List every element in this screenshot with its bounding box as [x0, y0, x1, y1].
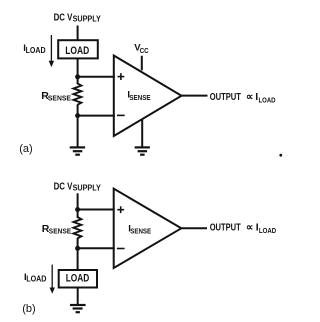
current arrow ILOAD (b): [50, 265, 55, 294]
plus input symbol (a): [118, 73, 125, 80]
svg-text:SENSE: SENSE: [129, 93, 150, 102]
svg-text:∝: ∝: [246, 91, 254, 103]
label DC VSUPPLY (a): [54, 12, 102, 23]
resistor RSENSE (a): [73, 83, 81, 104]
svg-text:OUTPUT: OUTPUT: [210, 221, 241, 233]
svg-text:LOAD: LOAD: [26, 46, 46, 55]
label OUTPUT prop ILOAD (a): [210, 91, 276, 105]
label RSENSE (b): [42, 223, 71, 236]
load box LOAD (a): [58, 40, 98, 58]
wire resistor to ground (a): [77, 105, 79, 148]
node junction bottom of RSENSE (b): [75, 246, 80, 251]
plus input symbol (b): [117, 206, 124, 213]
wire supply to resistor (b): [77, 193, 79, 218]
output wire (b): [181, 227, 207, 229]
svg-text:LOAD: LOAD: [66, 273, 90, 285]
load box LOAD (b): [59, 270, 97, 288]
label OUTPUT prop ILOAD (b): [210, 221, 277, 235]
wire node to + input (a): [78, 76, 115, 78]
node junction bottom of RSENSE (a): [75, 113, 80, 118]
output wire (a): [182, 95, 208, 97]
node junction top of RSENSE (b): [75, 207, 80, 212]
minus input symbol (b): [117, 248, 125, 250]
label ILOAD (b): [24, 272, 47, 284]
label ISENSE (b): [128, 223, 151, 235]
svg-text:LOAD: LOAD: [26, 275, 46, 284]
wire node to - input (a): [78, 115, 115, 117]
resistor RSENSE (b): [73, 217, 81, 238]
current arrow ILOAD (a): [49, 35, 54, 67]
svg-text:DC V: DC V: [54, 181, 73, 192]
svg-text:(b): (b): [22, 303, 35, 315]
op-amp U (a): [114, 56, 182, 137]
stray period: [279, 154, 282, 157]
svg-text:LOAD: LOAD: [259, 226, 277, 235]
wire op-amp to ground (a): [141, 119, 143, 147]
op-amp U (b): [114, 189, 182, 268]
svg-text:CC: CC: [140, 46, 149, 55]
svg-text:SENSE: SENSE: [130, 226, 151, 235]
ground below LOAD (b): [70, 305, 86, 312]
wire node to + input (b): [78, 209, 115, 211]
wire LOAD box to ground (b): [77, 288, 79, 305]
wire LOAD box to resistor (a): [77, 58, 79, 84]
node junction top of RSENSE (a): [75, 74, 80, 79]
svg-text:DC V: DC V: [54, 12, 73, 23]
label ILOAD (a): [23, 43, 46, 55]
wire VCC to op-amp (a): [141, 56, 143, 71]
wire supply to LOAD box (a): [77, 26, 79, 42]
svg-text:SENSE: SENSE: [49, 227, 71, 236]
svg-text:SUPPLY: SUPPLY: [73, 184, 102, 193]
ground below RSENSE (a): [70, 147, 85, 154]
svg-text:SUPPLY: SUPPLY: [73, 15, 102, 24]
label RSENSE (a): [41, 90, 71, 102]
svg-text:LOAD: LOAD: [259, 95, 276, 104]
ground below op-amp (a): [135, 147, 150, 154]
svg-text:SENSE: SENSE: [48, 93, 71, 102]
wire node to - input (b): [78, 247, 115, 249]
minus input symbol (a): [117, 114, 125, 116]
svg-text:(a): (a): [19, 143, 32, 155]
label ISENSE (a): [127, 90, 150, 102]
svg-text:OUTPUT: OUTPUT: [210, 91, 242, 103]
svg-text:LOAD: LOAD: [65, 45, 89, 57]
svg-text:∝: ∝: [246, 222, 254, 234]
wire resistor to LOAD box (b): [77, 238, 79, 270]
label DC VSUPPLY (b): [54, 181, 102, 192]
label VCC (a): [134, 43, 149, 55]
